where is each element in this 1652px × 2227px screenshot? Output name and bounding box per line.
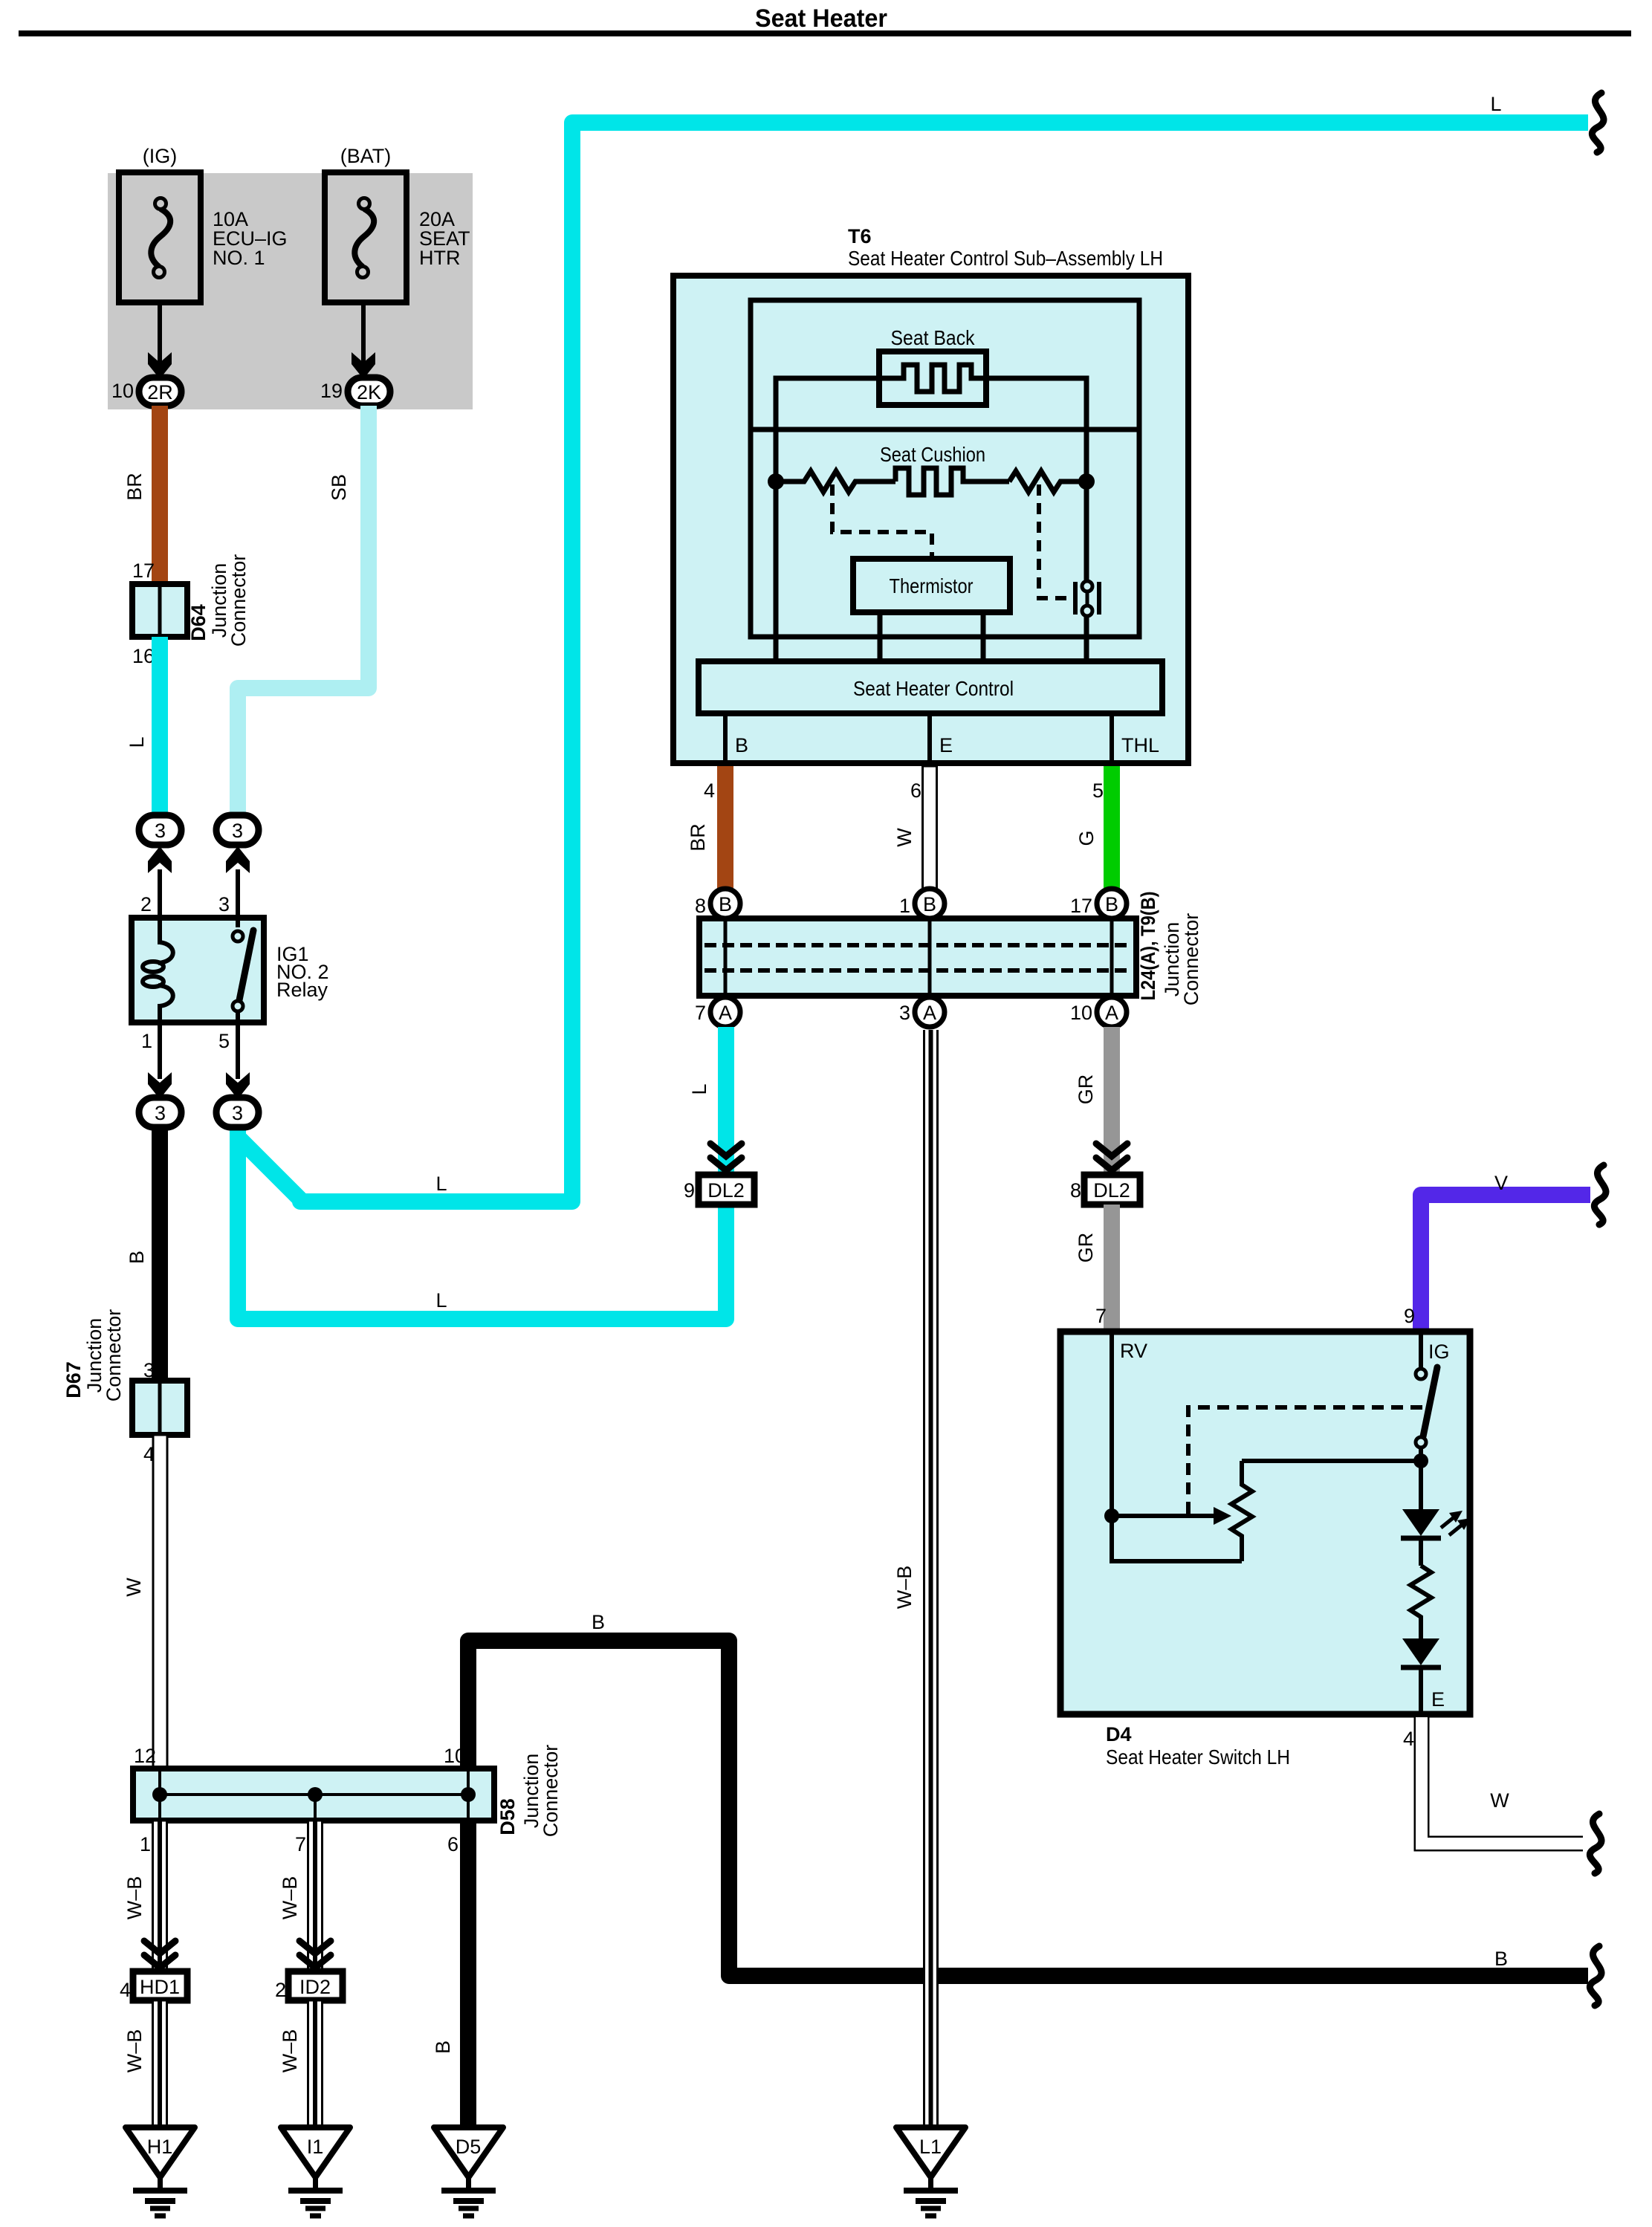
svg-text:6: 6	[910, 779, 921, 802]
svg-text:1: 1	[140, 1833, 151, 1855]
curl B right	[1590, 1946, 1601, 2006]
pin line E	[927, 713, 932, 765]
wire BR T6 to junction	[717, 766, 733, 891]
svg-text:THL: THL	[1121, 734, 1159, 756]
svg-text:8: 8	[1070, 1179, 1081, 1202]
circle B2	[915, 889, 945, 918]
wire cushion right vertical	[1084, 429, 1089, 580]
wire L cyan D64 to oval3	[152, 637, 168, 817]
svg-text:BR: BR	[123, 473, 146, 501]
svg-text:7: 7	[295, 1833, 306, 1855]
switch IG	[1416, 1332, 1437, 1509]
svg-text:7: 7	[1095, 1305, 1107, 1327]
wire cushion left vertical	[774, 429, 779, 661]
oval 3 relay pin1 bottom	[139, 1098, 181, 1127]
connector DL2 left	[699, 1175, 754, 1205]
dashed mechanical link D4	[1188, 1407, 1425, 1514]
wire W from D4 E with curl	[1422, 1717, 1583, 1844]
junction connector D67	[132, 1381, 187, 1435]
connector oval 2K	[348, 377, 390, 406]
svg-text:H1: H1	[147, 2136, 173, 2158]
thermistor box	[853, 559, 1010, 612]
wire L junction to DL2	[718, 1027, 734, 1175]
ground H1	[126, 2127, 195, 2216]
chevron arrow into DL2 left	[710, 1144, 742, 1170]
svg-text:(IG): (IG)	[143, 145, 178, 167]
oval 3 relay pin3 top	[216, 815, 259, 845]
svg-text:5: 5	[1092, 779, 1104, 802]
wire oval to relay pin3	[236, 869, 240, 918]
svg-text:Connector: Connector	[103, 1309, 125, 1402]
dashed link thermistor	[832, 484, 932, 556]
seat heater control box	[699, 661, 1162, 713]
svg-text:SB: SB	[328, 474, 350, 501]
svg-text:W–B: W–B	[279, 1876, 301, 1920]
wire B black oval to D67	[152, 1127, 168, 1381]
resistor cushion right	[1009, 471, 1086, 492]
relay IG1 NO.2 box	[132, 918, 264, 1022]
svg-text:4: 4	[704, 779, 715, 802]
wire oval to relay pin2	[158, 869, 162, 918]
junction connector D64	[132, 584, 187, 637]
svg-text:W–B: W–B	[279, 2029, 301, 2073]
wire RV line	[1110, 1332, 1114, 1516]
svg-text:Seat Heater Control Sub–Assemb: Seat Heater Control Sub–Assembly LH	[848, 247, 1163, 270]
svg-text:2: 2	[140, 893, 152, 915]
svg-text:L: L	[126, 736, 148, 748]
arrow up to oval pin2	[148, 846, 172, 873]
svg-text:3: 3	[232, 1102, 243, 1124]
wire V to D4 pin9 with curl	[1421, 1195, 1590, 1332]
svg-text:L: L	[435, 1289, 447, 1312]
wire W from D67 to D58	[153, 1435, 167, 1769]
curl W right	[1590, 1814, 1601, 1873]
junction connector L24(A) T9(B) box	[699, 918, 1136, 996]
svg-text:D58: D58	[496, 1798, 519, 1835]
wire GR DL2 to D4	[1104, 1205, 1120, 1332]
svg-text:B: B	[1105, 893, 1118, 915]
svg-text:B: B	[923, 893, 936, 915]
svg-text:6: 6	[447, 1833, 459, 1855]
arrow into 2K	[352, 352, 375, 379]
svg-text:BR: BR	[687, 823, 709, 852]
ground I1	[281, 2127, 350, 2216]
svg-text:4: 4	[1403, 1728, 1414, 1750]
potentiometer resistor	[1231, 1461, 1252, 1561]
svg-text:B: B	[719, 893, 732, 915]
junction connector D58	[133, 1769, 494, 1821]
svg-text:10: 10	[444, 1745, 466, 1767]
svg-text:W: W	[1490, 1789, 1509, 1812]
dashed link thermal switch	[1039, 484, 1072, 598]
wire BR from 2R to D64	[152, 406, 168, 584]
svg-text:ID2: ID2	[299, 1976, 331, 1998]
relay switch	[233, 918, 253, 1022]
svg-text:4: 4	[120, 1979, 131, 2001]
svg-text:(BAT): (BAT)	[340, 145, 392, 167]
svg-text:E: E	[939, 734, 953, 756]
circle B3	[1097, 889, 1127, 918]
node dot cushion left	[768, 473, 784, 490]
svg-text:W–B: W–B	[123, 1876, 146, 1920]
curl L top right	[1592, 93, 1604, 152]
svg-text:GR: GR	[1075, 1233, 1097, 1263]
svg-text:D4: D4	[1106, 1723, 1132, 1745]
svg-text:7: 7	[695, 1002, 706, 1024]
relay coil	[143, 918, 173, 1022]
svg-text:Thermistor: Thermistor	[890, 574, 974, 597]
pin line THL	[1110, 713, 1114, 765]
circle B1	[710, 889, 740, 918]
wire fuse2 to 2K	[361, 302, 366, 366]
wire seat back left	[776, 378, 879, 429]
svg-text:17: 17	[1070, 895, 1092, 917]
LED arrows	[1441, 1511, 1471, 1535]
resistor cushion left	[776, 471, 895, 492]
svg-text:2: 2	[275, 1979, 286, 2001]
svg-text:Seat Back: Seat Back	[891, 326, 976, 349]
svg-text:B: B	[126, 1251, 148, 1264]
svg-text:W: W	[123, 1578, 145, 1597]
D4 seat heater switch box	[1060, 1332, 1470, 1714]
LED	[1401, 1509, 1441, 1566]
svg-text:19: 19	[320, 380, 343, 402]
curl V	[1594, 1165, 1606, 1225]
svg-text:3: 3	[232, 820, 243, 842]
wire pot top to switch node	[1242, 1459, 1421, 1463]
svg-text:D67: D67	[62, 1361, 85, 1398]
node dot RV	[1104, 1508, 1119, 1523]
svg-text:Connector: Connector	[1180, 913, 1202, 1006]
svg-text:3: 3	[899, 1002, 910, 1024]
thermal switch	[1075, 581, 1099, 661]
wire G T6 to junction	[1104, 766, 1120, 891]
connector ID2	[288, 1971, 343, 2000]
svg-text:L24(A), T9(B): L24(A), T9(B)	[1137, 892, 1159, 1001]
svg-text:D5: D5	[456, 2136, 482, 2158]
seat back heater element	[879, 351, 986, 405]
svg-text:1: 1	[899, 895, 910, 917]
svg-text:17: 17	[132, 560, 155, 582]
svg-text:B: B	[432, 2040, 454, 2054]
svg-text:DL2: DL2	[1093, 1179, 1130, 1202]
arrow into 2R	[148, 352, 172, 379]
wire B D58 to ground D5	[460, 1821, 476, 2129]
fuse F1 10A ECU-IG NO.1	[119, 172, 201, 302]
wire L cyan branch to top right with curl	[238, 123, 1588, 1202]
svg-text:DL2: DL2	[707, 1179, 745, 1202]
potentiometer wiper arrow	[1112, 1507, 1231, 1525]
svg-text:Connector: Connector	[227, 554, 250, 647]
svg-text:GR: GR	[1075, 1074, 1097, 1105]
svg-text:3: 3	[218, 893, 230, 915]
svg-text:16: 16	[132, 645, 155, 667]
wire W-B D58 to HD1	[153, 1821, 167, 1971]
svg-text:A: A	[719, 1002, 732, 1024]
arrow down to oval pin1	[148, 1072, 172, 1099]
svg-text:L1: L1	[919, 2136, 942, 2158]
wire W T6 to junction	[923, 766, 937, 891]
svg-text:D64: D64	[187, 604, 210, 641]
wire relay pin5 down	[236, 1022, 240, 1079]
oval 3 relay pin2 top	[139, 815, 181, 845]
svg-text:L: L	[1490, 93, 1501, 115]
fuse block gray background	[108, 173, 473, 409]
T6 inner box	[751, 300, 1139, 637]
diode D4	[1401, 1638, 1441, 1714]
ground L1	[896, 2127, 965, 2216]
node dot switch	[1413, 1453, 1428, 1468]
wire W-B HD1 to ground	[153, 2000, 167, 2129]
svg-text:10: 10	[1070, 1002, 1092, 1024]
svg-text:I1: I1	[307, 2136, 324, 2158]
svg-text:Seat Cushion: Seat Cushion	[880, 443, 985, 466]
svg-text:G: G	[1075, 830, 1098, 846]
connector HD1	[133, 1971, 187, 2000]
svg-text:E: E	[1431, 1688, 1445, 1711]
svg-text:RV: RV	[1120, 1340, 1147, 1362]
connector oval 2R	[139, 377, 181, 406]
chevron arrow into ID2	[299, 1941, 331, 1968]
svg-text:T6: T6	[848, 225, 872, 247]
svg-text:1: 1	[141, 1030, 152, 1052]
pin line B	[723, 713, 728, 765]
svg-text:8: 8	[695, 895, 706, 917]
svg-text:B: B	[735, 734, 748, 756]
svg-text:Seat Heater: Seat Heater	[755, 4, 887, 33]
svg-text:Seat Heater Control: Seat Heater Control	[853, 677, 1014, 700]
resistor D4	[1410, 1566, 1431, 1638]
node dot cushion right	[1078, 473, 1095, 490]
svg-text:2K: 2K	[357, 381, 381, 403]
circle A2	[915, 997, 945, 1027]
svg-text:NO. 1: NO. 1	[213, 247, 265, 269]
svg-text:W–B: W–B	[893, 1566, 916, 1610]
circle A3	[1097, 997, 1127, 1027]
svg-text:L: L	[435, 1173, 447, 1195]
wire L cyan branch down to DL2	[238, 1122, 726, 1319]
svg-text:IG: IG	[1428, 1341, 1450, 1363]
svg-text:V: V	[1494, 1172, 1508, 1194]
wire seat back right	[986, 378, 1086, 429]
svg-text:5: 5	[218, 1030, 230, 1052]
T6 section divider	[751, 427, 1139, 432]
title rule	[19, 30, 1631, 36]
svg-text:HTR: HTR	[419, 247, 461, 269]
svg-text:Relay: Relay	[276, 979, 328, 1001]
wire W-B D58 to ID2	[308, 1821, 323, 1971]
fuse F2 20A SEAT HTR	[325, 172, 406, 302]
chevron arrow into HD1	[144, 1941, 175, 1968]
svg-text:A: A	[1105, 1002, 1118, 1024]
svg-text:9: 9	[1404, 1305, 1415, 1327]
svg-text:3: 3	[155, 820, 166, 842]
svg-text:2R: 2R	[147, 381, 173, 403]
wire relay pin1 down	[158, 1022, 162, 1079]
svg-text:HD1: HD1	[140, 1976, 180, 1998]
wire pot bottom loop	[1112, 1521, 1242, 1561]
connector DL2 right	[1084, 1175, 1140, 1205]
chevron arrow into DL2 right	[1096, 1144, 1127, 1170]
T6 outer box	[673, 276, 1188, 763]
thermistor leads	[878, 612, 883, 661]
arrow up to oval pin3	[226, 846, 250, 873]
svg-text:W–B: W–B	[123, 2029, 146, 2073]
svg-text:12: 12	[134, 1745, 156, 1767]
svg-text:B: B	[592, 1611, 605, 1633]
wire fuse1 to 2R	[158, 302, 162, 366]
wire SB from 2K to relay pin3 oval	[238, 406, 369, 817]
wire W-B ID2 to ground	[308, 2000, 323, 2129]
ground D5	[434, 2127, 503, 2216]
svg-text:W: W	[893, 828, 916, 847]
svg-text:A: A	[923, 1002, 936, 1024]
svg-text:B: B	[1494, 1948, 1508, 1970]
svg-text:Connector: Connector	[540, 1745, 562, 1838]
wire GR junction to DL2	[1104, 1027, 1120, 1175]
circle A1	[710, 997, 740, 1027]
svg-text:9: 9	[684, 1179, 695, 1202]
svg-text:L: L	[688, 1083, 710, 1095]
svg-text:10: 10	[111, 380, 134, 402]
cushion heater element	[895, 468, 1009, 495]
svg-text:3: 3	[155, 1102, 166, 1124]
oval 3 relay pin5 bottom	[216, 1098, 259, 1127]
wire W-B junction down to L1	[923, 1030, 939, 2130]
wire B thick D58 loop to right curl	[468, 1641, 1588, 1976]
svg-text:Seat Heater Switch LH: Seat Heater Switch LH	[1106, 1745, 1290, 1769]
arrow down to oval pin5	[226, 1072, 250, 1099]
